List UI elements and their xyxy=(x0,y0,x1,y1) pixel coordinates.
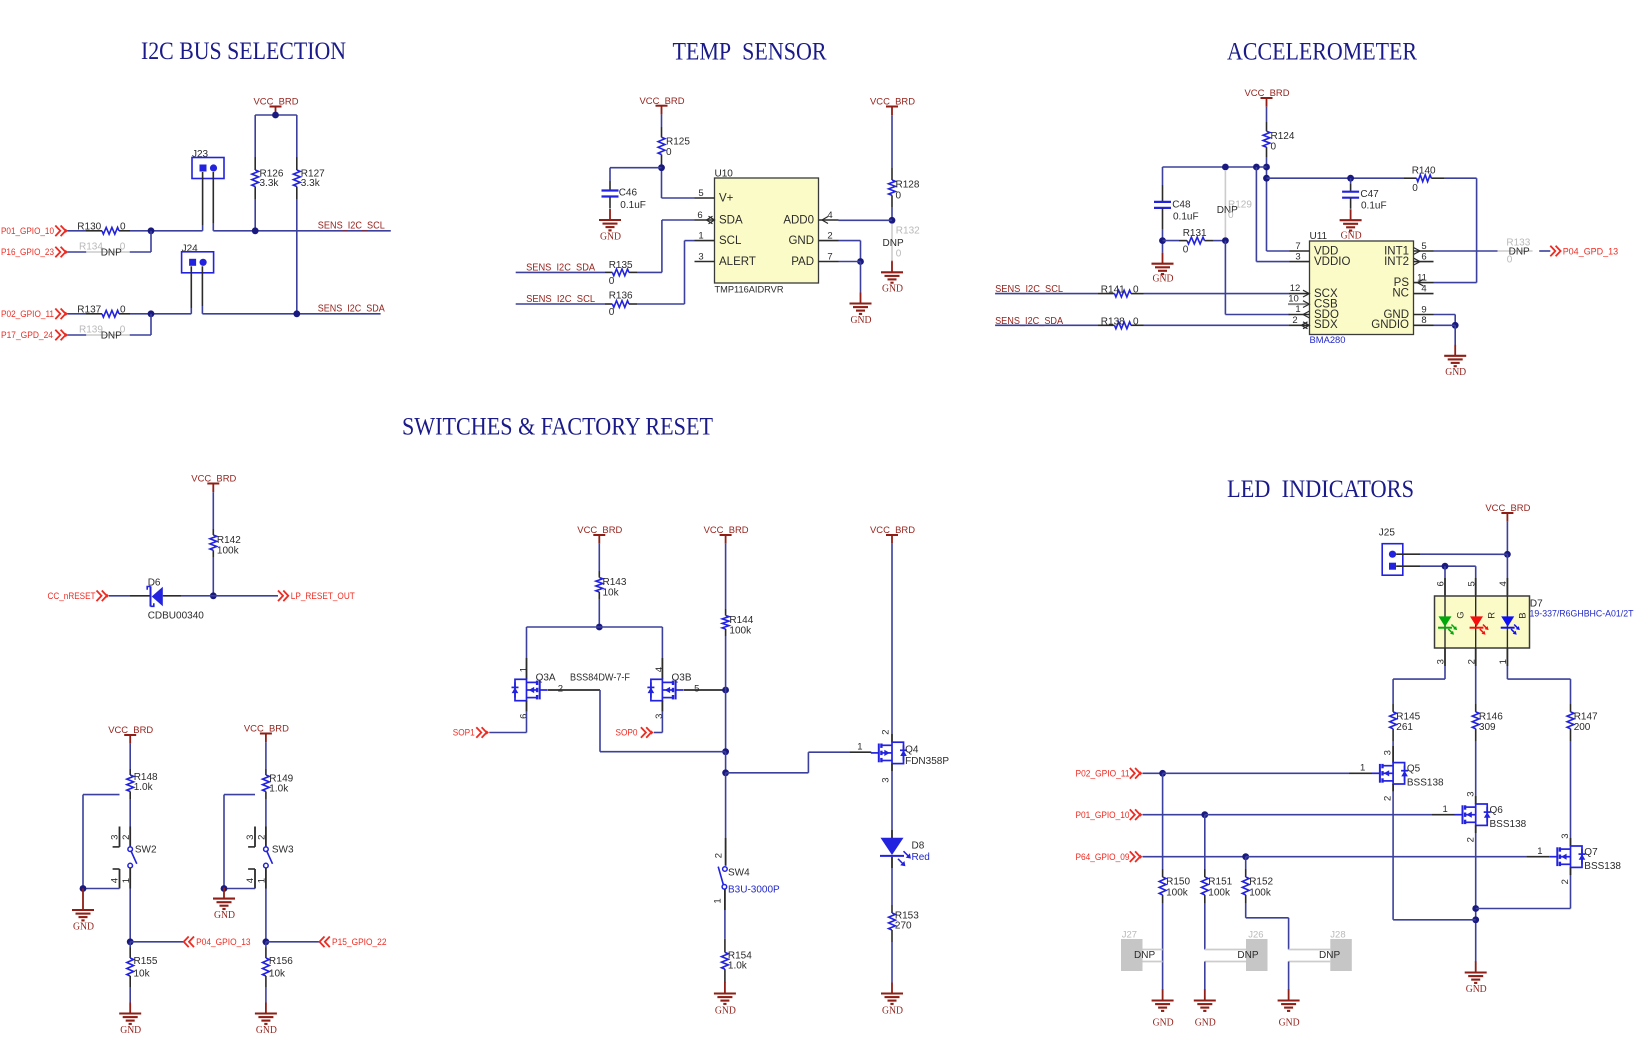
svg-text:6: 6 xyxy=(1421,251,1426,262)
svg-text:1: 1 xyxy=(1295,304,1300,315)
pin 7 PAD xyxy=(819,252,839,263)
resistor R143 10k xyxy=(596,544,627,599)
wire D6 to LP_RESET_OUT xyxy=(163,595,278,597)
ground GND (J28) xyxy=(1278,989,1300,1029)
svg-text:0: 0 xyxy=(609,307,615,318)
capacitor C48 0.1uF xyxy=(1154,185,1199,229)
power VCC_BRD (accel) xyxy=(1245,88,1290,107)
svg-text:P02_GPIO_11: P02_GPIO_11 xyxy=(1076,768,1130,778)
svg-text:GNDIO: GNDIO xyxy=(1371,319,1409,331)
wire R152 jog to J28 xyxy=(1246,903,1289,950)
resistor R134 DNP xyxy=(67,241,151,258)
wire R128 to ADD0 xyxy=(839,207,896,224)
svg-text:TMP116AIDRVR: TMP116AIDRVR xyxy=(715,285,784,296)
ground GND (U10 pad) xyxy=(850,293,872,326)
wire SOP node to Q4 gate xyxy=(726,742,872,773)
resistor R144 100k xyxy=(722,544,754,637)
svg-text:0: 0 xyxy=(1507,255,1513,266)
diode D6 CDBU00340 xyxy=(147,577,204,621)
svg-text:Q3A: Q3A xyxy=(536,673,556,684)
svg-text:0: 0 xyxy=(1183,245,1189,256)
wire Q3A source to SOP1 xyxy=(489,701,526,733)
wire R136 to SCL pin xyxy=(637,241,695,304)
svg-text:SENS_I2C_SDA: SENS_I2C_SDA xyxy=(318,304,385,315)
transistor Q3B BSS84DW-7-F xyxy=(647,658,691,719)
wire J23 pin1 to SCL xyxy=(202,172,204,231)
power VCC_BRD (ADD0 pullup) xyxy=(870,97,915,116)
svg-text:6: 6 xyxy=(518,714,529,719)
svg-text:R151: R151 xyxy=(1208,877,1232,888)
port P01_GPIO_10 xyxy=(1,226,68,237)
wire VCC rail to R126/R127 xyxy=(255,112,297,157)
svg-text:CDBU00340: CDBU00340 xyxy=(148,610,205,621)
svg-text:LP_RESET_OUT: LP_RESET_OUT xyxy=(291,591,355,601)
wire J28 to ground xyxy=(1288,962,1290,990)
wire CC_nRESET to D6 xyxy=(109,595,150,597)
svg-text:VDDIO: VDDIO xyxy=(1314,256,1350,268)
svg-text:FDN358P: FDN358P xyxy=(905,756,949,767)
svg-text:3: 3 xyxy=(1295,251,1300,262)
pin 4 NC xyxy=(1414,283,1434,294)
ground GND (R155) xyxy=(119,1003,141,1037)
port P02_GPIO_11 xyxy=(1076,768,1143,779)
LED D7 blue element xyxy=(1501,612,1529,634)
wire SW2 to P04 node xyxy=(127,889,184,946)
svg-text:Red: Red xyxy=(912,852,930,863)
svg-text:SW2: SW2 xyxy=(135,845,157,856)
ground GND (J27) xyxy=(1152,989,1174,1029)
svg-text:200: 200 xyxy=(1574,722,1591,733)
transistor Q6 BSS138 xyxy=(1455,741,1527,842)
svg-text:10k: 10k xyxy=(269,968,286,979)
svg-text:0: 0 xyxy=(1133,316,1139,327)
port LP_RESET_OUT xyxy=(278,591,355,602)
svg-text:10k: 10k xyxy=(134,968,151,979)
ground GND (U11) xyxy=(1444,345,1466,378)
capacitor C46 0.1uF xyxy=(602,181,646,211)
wire Q3A gate to R143 node xyxy=(548,683,600,751)
power VCC_BRD (Q4) xyxy=(870,525,915,544)
ground GND (SW2 loop) xyxy=(72,889,94,933)
svg-text:7: 7 xyxy=(1295,241,1300,252)
svg-text:R131: R131 xyxy=(1183,228,1207,239)
resistor R146 309 xyxy=(1472,704,1503,741)
svg-text:V+: V+ xyxy=(719,193,734,205)
svg-text:P15_GPIO_22: P15_GPIO_22 xyxy=(332,937,387,947)
switch SW2 xyxy=(109,827,157,889)
pin 1 SDO xyxy=(1289,304,1310,318)
svg-text:SDA: SDA xyxy=(719,215,743,227)
wire R142 to reset net xyxy=(210,557,217,599)
svg-text:P17_GPD_24: P17_GPD_24 xyxy=(1,330,53,340)
power VCC_BRD (I2C pull-ups) xyxy=(254,97,299,116)
LED D7 19-337/R6GHBHC-A01/2T xyxy=(1435,596,1634,648)
port P16_GPIO_23 xyxy=(1,247,68,258)
svg-text:100k: 100k xyxy=(1249,887,1272,898)
pin 8 GNDIO xyxy=(1414,315,1434,326)
LED D7 green element xyxy=(1438,611,1467,634)
svg-text:7: 7 xyxy=(827,252,832,263)
pin 10 CSB xyxy=(1288,294,1310,308)
port SOP0 xyxy=(616,727,654,738)
svg-text:SWITCHES & FACTORY RESET: SWITCHES & FACTORY RESET xyxy=(402,414,713,441)
ground GND (LED drivers) xyxy=(1465,962,1487,995)
svg-text:12: 12 xyxy=(1290,283,1301,294)
pin 9 GND xyxy=(1414,304,1434,315)
svg-text:3: 3 xyxy=(881,777,892,782)
svg-text:TEMP SENSOR: TEMP SENSOR xyxy=(673,38,827,65)
svg-text:U10: U10 xyxy=(715,169,734,180)
svg-text:Q5: Q5 xyxy=(1407,764,1421,775)
svg-text:ACCELEROMETER: ACCELEROMETER xyxy=(1227,38,1417,65)
wire R131/R129 node to SDO xyxy=(1222,237,1290,314)
svg-text:0: 0 xyxy=(896,248,902,259)
resistor R136 0 xyxy=(605,291,637,318)
svg-text:GND: GND xyxy=(1279,1018,1300,1029)
svg-text:SCL: SCL xyxy=(719,235,742,247)
svg-text:8: 8 xyxy=(1421,315,1426,326)
pin 5 INT1 xyxy=(1414,241,1434,255)
svg-text:1.0k: 1.0k xyxy=(728,960,748,971)
svg-text:SOP0: SOP0 xyxy=(616,728,638,738)
title I2C BUS SELECTION xyxy=(141,38,346,65)
wire SENS_I2C_SDA to R138 xyxy=(995,324,1098,326)
svg-text:100k: 100k xyxy=(729,625,752,636)
svg-text:J25: J25 xyxy=(1379,528,1396,539)
svg-text:Q3B: Q3B xyxy=(672,673,692,684)
svg-text:INT2: INT2 xyxy=(1384,256,1409,268)
pin 3 VDDIO xyxy=(1290,251,1310,262)
svg-text:0.1uF: 0.1uF xyxy=(1361,200,1387,211)
svg-text:0.1uF: 0.1uF xyxy=(1173,212,1199,223)
pin 3 ALERT xyxy=(695,252,715,263)
port P64_GPIO_09 xyxy=(1076,851,1143,862)
svg-text:BSS84DW-7-F: BSS84DW-7-F xyxy=(570,673,630,684)
svg-text:J26: J26 xyxy=(1248,929,1263,940)
resistor R142 100k xyxy=(210,492,241,557)
svg-text:P01_GPIO_10: P01_GPIO_10 xyxy=(1,226,54,236)
wire SENS_I2C_SCL to R136 xyxy=(516,303,605,305)
svg-text:GND: GND xyxy=(1466,984,1487,995)
svg-text:0: 0 xyxy=(1271,141,1277,152)
resistor R156 10k xyxy=(263,942,294,987)
power VCC_BRD (R143) xyxy=(577,525,622,544)
resistor R126 3.3k xyxy=(252,157,284,199)
svg-text:2: 2 xyxy=(827,231,832,242)
svg-text:J24: J24 xyxy=(182,243,199,254)
wire SENS_I2C_SCL (left) xyxy=(130,227,203,252)
svg-text:1: 1 xyxy=(1498,659,1509,664)
port P02_GPIO_11 xyxy=(1,309,68,320)
svg-text:1: 1 xyxy=(1537,846,1542,857)
svg-text:R150: R150 xyxy=(1166,877,1190,888)
pin 1 SCL xyxy=(695,231,715,242)
resistor R138 0 xyxy=(1098,316,1144,328)
transistor Q7 BSS138 xyxy=(1549,741,1621,884)
svg-text:3: 3 xyxy=(1465,792,1476,797)
svg-text:R143: R143 xyxy=(603,577,627,588)
svg-text:0: 0 xyxy=(1133,285,1139,296)
title SWITCHES & FACTORY RESET xyxy=(402,414,713,441)
svg-text:4: 4 xyxy=(654,667,665,672)
wire VCC to J25/D7 xyxy=(1504,522,1511,578)
svg-text:2: 2 xyxy=(1383,796,1394,801)
svg-text:R128: R128 xyxy=(896,180,920,191)
power VCC_BRD (R144) xyxy=(704,525,749,544)
svg-text:R156: R156 xyxy=(269,956,293,967)
ground GND (J26) xyxy=(1194,989,1216,1029)
svg-text:SDX: SDX xyxy=(1314,319,1338,331)
svg-text:J23: J23 xyxy=(192,149,209,160)
svg-text:B3U-3000P: B3U-3000P xyxy=(728,885,780,896)
wire GND/PAD pins to ground xyxy=(839,241,864,293)
port P01_GPIO_10 xyxy=(1076,809,1143,820)
svg-text:GND: GND xyxy=(1341,231,1362,242)
resistor R147 200 xyxy=(1567,704,1598,741)
svg-text:ADD0: ADD0 xyxy=(783,215,814,227)
ground GND (C47) xyxy=(1340,209,1362,241)
svg-text:1: 1 xyxy=(1360,763,1365,774)
svg-text:GND: GND xyxy=(788,235,814,247)
svg-text:ALERT: ALERT xyxy=(719,256,756,268)
svg-text:0: 0 xyxy=(1412,183,1418,194)
resistor R137 0 xyxy=(67,305,130,318)
svg-text:5: 5 xyxy=(1466,581,1477,586)
switch SW4 B3U-3000P xyxy=(713,838,781,904)
svg-text:R152: R152 xyxy=(1249,877,1273,888)
svg-text:GND: GND xyxy=(120,1025,141,1033)
svg-text:GND: GND xyxy=(600,231,621,242)
pin 3 D7 green cathode xyxy=(1436,648,1447,666)
wire R148 to SW2 pin2 xyxy=(129,799,131,827)
svg-text:CC_nRESET: CC_nRESET xyxy=(48,591,96,601)
resistor R139 DNP xyxy=(67,324,151,341)
port SOP1 xyxy=(453,727,489,738)
svg-text:3: 3 xyxy=(654,714,665,719)
connector J28 DNP xyxy=(1289,929,1352,971)
resistor R129 DNP xyxy=(1217,170,1253,237)
svg-text:261: 261 xyxy=(1396,722,1413,733)
svg-text:1: 1 xyxy=(257,878,268,883)
resistor R131 0 xyxy=(1163,228,1226,255)
pin 5 V+ xyxy=(695,188,715,199)
svg-text:1.0k: 1.0k xyxy=(134,782,154,793)
svg-text:2: 2 xyxy=(1292,315,1297,326)
svg-text:R155: R155 xyxy=(134,956,158,967)
ground GND (R132) xyxy=(881,261,903,295)
svg-text:0: 0 xyxy=(896,190,902,201)
svg-text:P64_GPIO_09: P64_GPIO_09 xyxy=(1076,852,1130,862)
svg-text:4: 4 xyxy=(1498,581,1509,586)
svg-text:DNP: DNP xyxy=(1237,950,1258,961)
svg-text:GND: GND xyxy=(1195,1018,1216,1029)
svg-text:0: 0 xyxy=(666,147,672,158)
connector J27 DNP xyxy=(1121,929,1163,971)
IC U10 TMP116AIDRVR xyxy=(715,169,819,296)
svg-text:GND: GND xyxy=(214,910,235,921)
wire D7 blue to R147 xyxy=(1507,666,1570,704)
svg-text:R142: R142 xyxy=(217,535,241,546)
svg-text:0: 0 xyxy=(609,276,615,287)
resistor R135 0 xyxy=(605,260,637,287)
svg-text:0: 0 xyxy=(120,324,126,335)
title TEMP SENSOR xyxy=(673,38,827,65)
capacitor C47 0.1uF xyxy=(1342,184,1386,211)
svg-text:3.3k: 3.3k xyxy=(301,178,321,189)
wire J24 pin2 to SDA right xyxy=(201,266,203,314)
resistor R133 DNP xyxy=(1498,237,1551,265)
resistor R154 1.0k xyxy=(722,939,753,982)
title ACCELEROMETER xyxy=(1227,38,1417,65)
wire R150 through J27 to ground xyxy=(1162,903,1164,989)
IC U11 BMA280 xyxy=(1310,231,1414,346)
resistor R132 DNP xyxy=(883,224,921,261)
svg-text:C47: C47 xyxy=(1360,189,1379,200)
wire R149 to SW3 pin2 xyxy=(265,799,267,827)
svg-text:2: 2 xyxy=(881,730,892,735)
svg-text:Q4: Q4 xyxy=(905,745,919,756)
svg-text:R140: R140 xyxy=(1412,165,1436,176)
svg-text:GND: GND xyxy=(882,1006,903,1017)
transistor Q4 FDN358P xyxy=(871,730,950,783)
svg-text:4: 4 xyxy=(827,210,832,221)
pin 12 SCX xyxy=(1289,283,1310,297)
svg-text:0: 0 xyxy=(1228,210,1234,221)
svg-text:2: 2 xyxy=(257,835,268,840)
svg-text:2: 2 xyxy=(1560,879,1571,884)
wire SENS_I2C_SCL (right) xyxy=(213,227,390,234)
svg-text:1: 1 xyxy=(1443,804,1448,815)
wire P02 to Q5 gate xyxy=(1143,763,1373,777)
svg-text:2: 2 xyxy=(121,835,132,840)
svg-text:R124: R124 xyxy=(1271,131,1295,142)
net label SENS_I2C_SCL (accel) xyxy=(995,284,1063,295)
svg-text:100k: 100k xyxy=(1166,887,1189,898)
svg-text:R134: R134 xyxy=(79,241,103,252)
wire J24 pin1 to SDA xyxy=(190,266,192,314)
svg-text:3.3k: 3.3k xyxy=(260,178,280,189)
svg-text:GND: GND xyxy=(1445,367,1466,378)
wire J25 pin2 to G/R columns xyxy=(1396,563,1476,578)
title LED INDICATORS xyxy=(1227,476,1414,503)
svg-text:DNP: DNP xyxy=(1134,950,1155,961)
resistor R124 0 xyxy=(1263,107,1295,157)
power VCC_BRD (reset pullup) xyxy=(191,474,236,493)
pin 6 INT2 xyxy=(1414,251,1434,265)
svg-text:GND: GND xyxy=(851,315,872,326)
wire R135 to SDA pin xyxy=(637,220,695,272)
svg-text:19-337/R6GHBHC-A01/2T: 19-337/R6GHBHC-A01/2T xyxy=(1530,608,1634,618)
switch SW3 xyxy=(245,827,294,889)
svg-text:100k: 100k xyxy=(217,546,240,557)
wire Q5/Q6/Q7 sources to ground xyxy=(1393,784,1570,962)
svg-text:R130: R130 xyxy=(77,222,101,233)
wire J23 pin2 to SCL right xyxy=(212,172,214,231)
resistor R127 3.3k xyxy=(293,157,325,199)
svg-text:5: 5 xyxy=(694,683,699,694)
resistor R141 0 xyxy=(1098,285,1144,297)
svg-text:1: 1 xyxy=(713,898,724,903)
power VCC_BRD (LED) xyxy=(1485,503,1530,522)
svg-text:3: 3 xyxy=(109,835,120,840)
svg-text:1.0k: 1.0k xyxy=(269,784,289,795)
net label SENS_I2C_SCL (temp) xyxy=(526,294,595,305)
wire SW4 feed xyxy=(725,773,727,838)
svg-text:3: 3 xyxy=(1383,750,1394,755)
svg-text:D6: D6 xyxy=(148,577,161,588)
svg-text:BSS138: BSS138 xyxy=(1490,819,1527,830)
resistor R130 0 xyxy=(67,222,130,235)
connector J26 DNP xyxy=(1205,929,1268,971)
svg-text:R144: R144 xyxy=(729,615,753,626)
wire SW3 side pins loop xyxy=(221,795,255,892)
pin 4 ADD0 xyxy=(819,210,839,224)
wire R143 node rail xyxy=(527,599,663,658)
wire C48 to R131 node xyxy=(1159,229,1166,253)
svg-text:R136: R136 xyxy=(609,291,633,302)
svg-text:R141: R141 xyxy=(1101,285,1125,296)
svg-text:10k: 10k xyxy=(603,588,620,599)
svg-text:GND: GND xyxy=(73,921,94,932)
svg-text:P04_GPIO_13: P04_GPIO_13 xyxy=(196,937,251,947)
wire R153 to ground xyxy=(891,942,893,983)
svg-text:0: 0 xyxy=(120,222,126,233)
port P15_GPIO_22 xyxy=(320,937,387,948)
transistor Q5 BSS138 xyxy=(1372,741,1444,801)
wire R125 to V+ and C46 xyxy=(610,164,695,198)
port CC_nRESET xyxy=(48,591,110,602)
svg-text:2: 2 xyxy=(1465,837,1476,842)
svg-text:309: 309 xyxy=(1479,722,1496,733)
wire Q3B gate to R144 xyxy=(684,683,729,694)
wire P01 to Q6 gate xyxy=(1143,804,1455,818)
pin 4 D7 blue anode xyxy=(1498,578,1509,596)
wire J25 pin1 to VCC xyxy=(1396,553,1507,555)
pin 2 SDX xyxy=(1289,315,1310,329)
ground GND (R153) xyxy=(881,983,903,1017)
svg-text:GND: GND xyxy=(882,284,903,295)
net label SENS_I2C_SCL xyxy=(318,221,385,232)
svg-text:5: 5 xyxy=(1421,241,1426,252)
svg-text:P04_GPD_13: P04_GPD_13 xyxy=(1563,247,1619,257)
wire R151 to J26 xyxy=(1204,903,1206,950)
svg-text:0: 0 xyxy=(120,241,126,252)
connector J23 xyxy=(192,149,224,179)
svg-text:6: 6 xyxy=(697,210,702,221)
svg-text:100k: 100k xyxy=(1208,887,1231,898)
svg-text:SOP1: SOP1 xyxy=(453,728,475,738)
svg-text:9: 9 xyxy=(1421,304,1426,315)
svg-text:B: B xyxy=(1517,612,1528,618)
LED D7 red element xyxy=(1470,612,1498,635)
wire INT1 to R133 xyxy=(1434,250,1498,252)
pin 2 D7 red cathode xyxy=(1466,648,1477,666)
svg-text:NC: NC xyxy=(1392,288,1409,300)
svg-text:GND: GND xyxy=(1153,273,1174,284)
connector J25 xyxy=(1379,528,1403,576)
svg-text:GND: GND xyxy=(715,1006,736,1017)
wire SW4 to R154 xyxy=(724,889,726,939)
ground GND (R156) xyxy=(255,1003,277,1037)
svg-text:C48: C48 xyxy=(1172,200,1191,211)
svg-text:LED INDICATORS: LED INDICATORS xyxy=(1227,476,1414,503)
wire Q4 source to D8 xyxy=(891,764,893,838)
power VCC_BRD (SW3) xyxy=(244,724,289,743)
svg-text:270: 270 xyxy=(895,921,912,932)
resistor R153 270 xyxy=(889,911,920,943)
svg-text:BSS138: BSS138 xyxy=(1584,861,1621,872)
ground GND (C46) xyxy=(599,209,621,242)
